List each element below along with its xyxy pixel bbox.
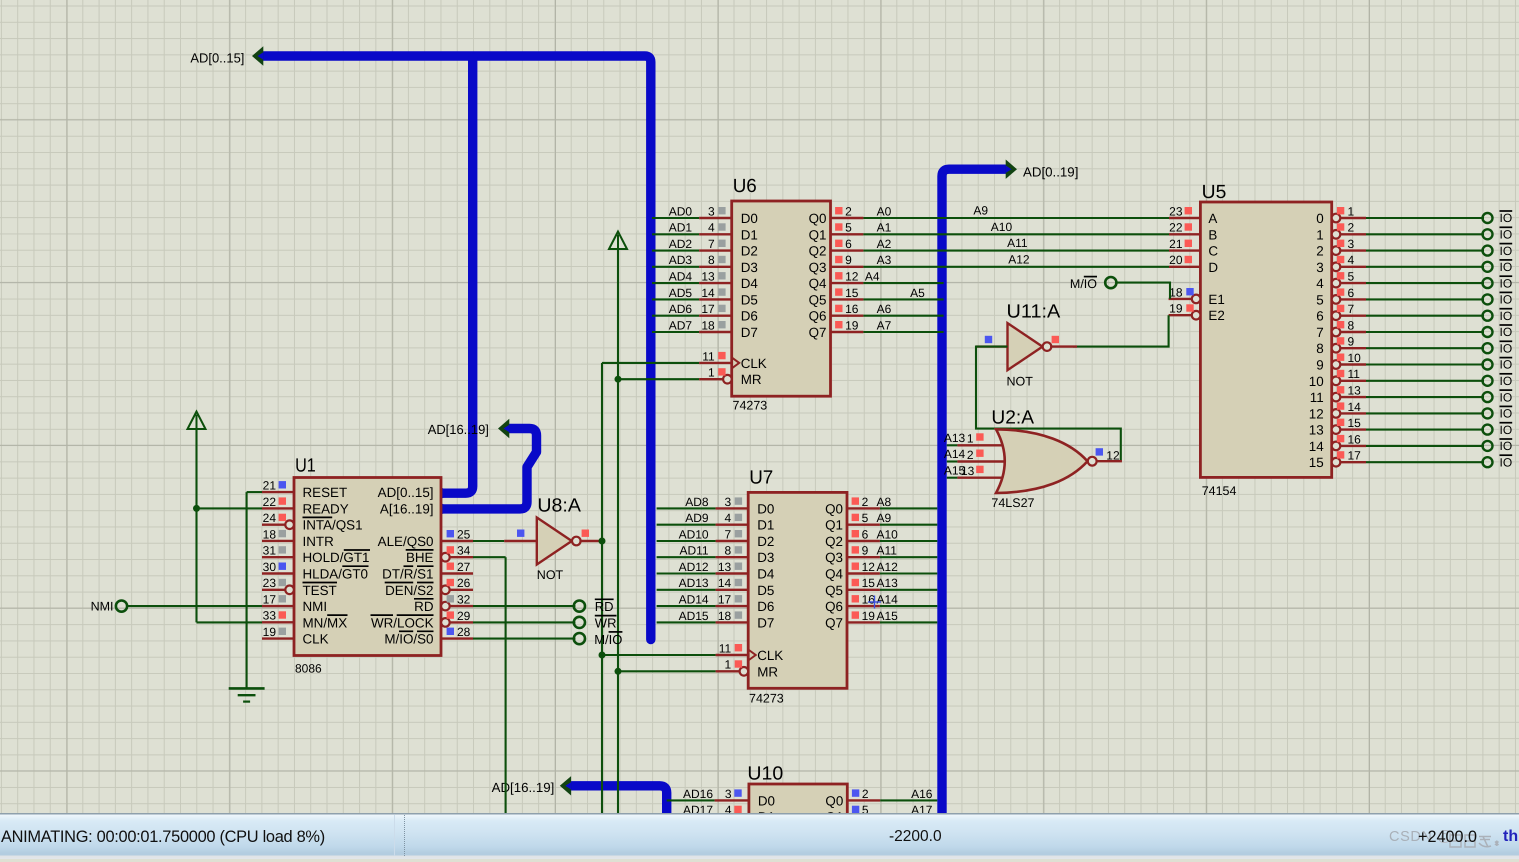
svg-text:D3: D3 — [757, 550, 774, 565]
svg-text:Q2: Q2 — [825, 534, 843, 549]
svg-text:30: 30 — [263, 560, 277, 574]
svg-text:74273: 74273 — [733, 399, 768, 413]
svg-text:U5: U5 — [1202, 182, 1227, 203]
svg-text:7: 7 — [708, 237, 715, 251]
svg-text:18: 18 — [263, 527, 277, 541]
svg-text:D4: D4 — [757, 567, 775, 582]
svg-text:6: 6 — [862, 527, 869, 541]
svg-text:A12: A12 — [1008, 252, 1030, 266]
svg-text:74273: 74273 — [749, 692, 784, 706]
svg-text:20: 20 — [1169, 253, 1183, 267]
svg-text:1: 1 — [1316, 227, 1323, 242]
svg-text:IO: IO — [1500, 211, 1513, 225]
svg-text:14: 14 — [718, 576, 732, 590]
svg-text:U1: U1 — [295, 456, 316, 477]
svg-text:4: 4 — [1348, 253, 1355, 267]
svg-text:8086: 8086 — [295, 662, 322, 676]
svg-text:16: 16 — [845, 302, 859, 316]
svg-text:A12: A12 — [877, 560, 899, 574]
svg-text:WR: WR — [595, 616, 617, 631]
svg-text:AD9: AD9 — [685, 511, 709, 525]
svg-text:16: 16 — [862, 593, 876, 607]
svg-text:13: 13 — [1309, 423, 1324, 438]
svg-text:RD: RD — [595, 599, 614, 614]
svg-text:U6: U6 — [733, 176, 757, 197]
svg-text:AD2: AD2 — [669, 237, 693, 251]
svg-text:5: 5 — [1316, 292, 1323, 307]
svg-text:D3: D3 — [741, 260, 758, 275]
svg-text:9: 9 — [1348, 335, 1355, 349]
svg-text:A10: A10 — [877, 527, 899, 541]
svg-text:23: 23 — [1169, 204, 1183, 218]
svg-text:AD7: AD7 — [669, 318, 693, 332]
svg-text:12: 12 — [862, 560, 876, 574]
svg-text:A0: A0 — [877, 204, 892, 218]
svg-text:15: 15 — [1348, 416, 1362, 430]
svg-text:AD3: AD3 — [669, 253, 693, 267]
svg-text:MR: MR — [741, 372, 762, 387]
svg-text:14: 14 — [701, 286, 715, 300]
svg-text:RESET: RESET — [303, 485, 348, 500]
svg-text:17: 17 — [1348, 449, 1362, 463]
svg-text:A14: A14 — [944, 447, 966, 461]
svg-text:IO: IO — [1500, 244, 1513, 258]
svg-text:M/IO/S0: M/IO/S0 — [384, 632, 433, 647]
svg-text:A4: A4 — [865, 270, 880, 284]
svg-text:16: 16 — [1348, 432, 1362, 446]
svg-text:U7: U7 — [749, 468, 773, 489]
svg-text:A9: A9 — [973, 204, 988, 218]
svg-text:0: 0 — [1316, 211, 1323, 226]
svg-text:2: 2 — [967, 448, 974, 462]
svg-text:D5: D5 — [757, 583, 774, 598]
svg-text:AD12: AD12 — [679, 560, 709, 574]
svg-text:MN/MX: MN/MX — [303, 615, 348, 630]
svg-text:Q6: Q6 — [809, 309, 827, 324]
svg-text:14: 14 — [1348, 400, 1362, 414]
svg-text:74LS27: 74LS27 — [991, 496, 1034, 510]
svg-text:D0: D0 — [741, 211, 758, 226]
svg-text:15: 15 — [1309, 455, 1324, 470]
svg-text:Q7: Q7 — [825, 615, 843, 630]
svg-text:HOLD/GT1: HOLD/GT1 — [303, 550, 370, 565]
svg-text:BHE: BHE — [406, 550, 434, 565]
svg-text:AD8: AD8 — [685, 495, 709, 509]
svg-text:IO: IO — [1500, 374, 1513, 388]
svg-text:D7: D7 — [757, 615, 774, 630]
svg-text:9: 9 — [845, 253, 852, 267]
svg-text:9: 9 — [1316, 358, 1323, 373]
svg-text:5: 5 — [1348, 270, 1355, 284]
svg-text:1: 1 — [967, 432, 974, 446]
svg-text:AD11: AD11 — [679, 544, 708, 558]
svg-text:7: 7 — [725, 527, 732, 541]
svg-text:19: 19 — [1169, 302, 1183, 316]
svg-text:AD10: AD10 — [679, 527, 709, 541]
svg-text:18: 18 — [1169, 285, 1183, 299]
svg-text:29: 29 — [457, 609, 471, 623]
svg-text:21: 21 — [263, 479, 277, 493]
svg-text:D2: D2 — [757, 534, 774, 549]
svg-text:12: 12 — [1106, 448, 1120, 462]
svg-text:34: 34 — [457, 544, 471, 558]
svg-text:10: 10 — [1309, 374, 1324, 389]
svg-text:A3: A3 — [877, 253, 892, 267]
svg-text:2: 2 — [862, 787, 869, 801]
svg-text:3: 3 — [708, 204, 715, 218]
svg-text:READY: READY — [303, 501, 349, 516]
svg-text:10: 10 — [1348, 351, 1362, 365]
svg-text:HLDA/GT0: HLDA/GT0 — [303, 567, 368, 582]
svg-text:DT/R/S1: DT/R/S1 — [382, 567, 433, 582]
svg-text:IO: IO — [1500, 407, 1513, 421]
svg-text:CLK: CLK — [303, 632, 329, 647]
svg-text:Q7: Q7 — [809, 325, 827, 340]
svg-text:IO: IO — [1500, 455, 1513, 469]
svg-text:AD[0..15]: AD[0..15] — [190, 51, 244, 66]
svg-text:15: 15 — [845, 286, 859, 300]
svg-text:12: 12 — [1309, 406, 1324, 421]
svg-text:22: 22 — [263, 495, 277, 509]
svg-text:U10: U10 — [747, 764, 783, 785]
svg-text:1: 1 — [708, 366, 715, 380]
svg-text:IO: IO — [1500, 390, 1513, 404]
svg-text:31: 31 — [263, 544, 277, 558]
svg-text:Q2: Q2 — [809, 244, 827, 259]
svg-text:Q3: Q3 — [825, 550, 843, 565]
svg-text:Q6: Q6 — [825, 599, 843, 614]
svg-text:C: C — [1208, 244, 1218, 259]
svg-text:22: 22 — [1169, 221, 1183, 235]
svg-text:CLK: CLK — [741, 356, 767, 371]
svg-text:13: 13 — [1348, 384, 1362, 398]
svg-text:6: 6 — [1348, 286, 1355, 300]
svg-text:AD0: AD0 — [669, 204, 693, 218]
svg-text:8: 8 — [1348, 318, 1355, 332]
svg-text:13: 13 — [961, 464, 975, 478]
svg-text:IO: IO — [1500, 439, 1513, 453]
svg-text:A[16..19]: A[16..19] — [380, 501, 434, 516]
svg-text:24: 24 — [263, 511, 277, 525]
svg-text:AD1: AD1 — [669, 221, 693, 235]
svg-text:19: 19 — [263, 625, 277, 639]
svg-text:12: 12 — [845, 270, 859, 284]
svg-text:A11: A11 — [1007, 236, 1028, 250]
svg-text:B: B — [1208, 227, 1217, 242]
svg-text:18: 18 — [701, 318, 715, 332]
svg-text:WR/LOCK: WR/LOCK — [371, 615, 434, 630]
svg-text:17: 17 — [701, 302, 715, 316]
svg-text:AD[0..19]: AD[0..19] — [1023, 165, 1078, 180]
svg-text:A15: A15 — [877, 609, 899, 623]
svg-text:5: 5 — [862, 511, 869, 525]
svg-text:AD16: AD16 — [683, 787, 713, 801]
svg-text:8: 8 — [708, 253, 715, 267]
svg-text:19: 19 — [862, 609, 876, 623]
svg-text:Q3: Q3 — [809, 260, 827, 275]
svg-text:D2: D2 — [741, 244, 758, 259]
svg-text:Q0: Q0 — [809, 211, 827, 226]
svg-text:AD[0..15]: AD[0..15] — [378, 485, 434, 500]
svg-text:A14: A14 — [877, 593, 899, 607]
svg-text:2: 2 — [1316, 244, 1323, 259]
svg-text:A2: A2 — [877, 237, 892, 251]
svg-text:A13: A13 — [944, 431, 966, 445]
svg-text:A: A — [1208, 211, 1217, 226]
svg-text:7: 7 — [1348, 302, 1355, 316]
svg-text:A9: A9 — [877, 511, 892, 525]
svg-text:4: 4 — [1316, 276, 1324, 291]
svg-text:6: 6 — [1316, 309, 1323, 324]
svg-text:NMI: NMI — [303, 599, 328, 614]
svg-text:8: 8 — [725, 544, 732, 558]
svg-text:18: 18 — [718, 609, 732, 623]
svg-text:Q1: Q1 — [809, 227, 827, 242]
svg-text:A6: A6 — [877, 302, 892, 316]
svg-text:A10: A10 — [991, 220, 1013, 234]
svg-text:A11: A11 — [877, 544, 898, 558]
svg-text:2: 2 — [845, 204, 852, 218]
svg-text:14: 14 — [1309, 439, 1324, 454]
svg-text:Q4: Q4 — [825, 567, 843, 582]
svg-text:D1: D1 — [757, 518, 774, 533]
svg-text:Q5: Q5 — [809, 292, 827, 307]
svg-text:33: 33 — [263, 609, 277, 623]
svg-text:IO: IO — [1500, 423, 1513, 437]
svg-text:74154: 74154 — [1202, 484, 1237, 498]
svg-text:INTA/QS1: INTA/QS1 — [303, 518, 363, 533]
svg-text:IO: IO — [1500, 309, 1513, 323]
svg-text:23: 23 — [263, 576, 277, 590]
svg-text:AD4: AD4 — [669, 270, 693, 284]
svg-text:IO: IO — [1500, 293, 1513, 307]
svg-text:A1: A1 — [877, 221, 892, 235]
svg-text:DEN/S2: DEN/S2 — [385, 583, 433, 598]
svg-text:3: 3 — [1316, 260, 1323, 275]
svg-text:AD[16..19]: AD[16..19] — [492, 780, 555, 795]
svg-text:U11:A: U11:A — [1007, 302, 1061, 323]
svg-text:D4: D4 — [741, 276, 759, 291]
svg-text:Q5: Q5 — [825, 583, 843, 598]
svg-text:11: 11 — [1310, 390, 1324, 405]
svg-text:M/IO: M/IO — [594, 632, 622, 647]
svg-text:MR: MR — [757, 664, 778, 679]
svg-text:NOT: NOT — [1007, 375, 1034, 389]
svg-text:Q4: Q4 — [809, 276, 827, 291]
svg-text:Q0: Q0 — [825, 793, 843, 808]
svg-text:6: 6 — [845, 237, 852, 251]
svg-text:M/IO: M/IO — [1070, 277, 1097, 291]
svg-text:2: 2 — [1348, 221, 1355, 235]
svg-text:7: 7 — [1316, 325, 1323, 340]
svg-text:IO: IO — [1500, 228, 1513, 242]
svg-text:1: 1 — [725, 658, 732, 672]
svg-text:Q0: Q0 — [825, 501, 843, 516]
svg-text:D7: D7 — [741, 325, 758, 340]
svg-text:E2: E2 — [1208, 308, 1224, 323]
svg-text:Q1: Q1 — [825, 518, 843, 533]
svg-text:IO: IO — [1500, 341, 1513, 355]
svg-text:5: 5 — [845, 221, 852, 235]
svg-text:15: 15 — [862, 576, 876, 590]
svg-text:IO: IO — [1500, 260, 1513, 274]
svg-text:11: 11 — [1348, 367, 1361, 381]
svg-text:28: 28 — [457, 625, 471, 639]
svg-text:21: 21 — [1169, 237, 1183, 251]
svg-text:D6: D6 — [757, 599, 774, 614]
svg-text:AD5: AD5 — [669, 286, 693, 300]
svg-text:A5: A5 — [910, 286, 925, 300]
svg-text:A13: A13 — [877, 576, 899, 590]
svg-text:25: 25 — [457, 527, 471, 541]
svg-text:26: 26 — [457, 576, 471, 590]
svg-text:IO: IO — [1500, 358, 1513, 372]
svg-text:3: 3 — [1348, 237, 1355, 251]
svg-text:AD6: AD6 — [669, 302, 693, 316]
svg-text:AD13: AD13 — [679, 576, 709, 590]
svg-text:D0: D0 — [757, 501, 774, 516]
svg-text:3: 3 — [725, 495, 732, 509]
svg-text:RD: RD — [414, 599, 434, 614]
svg-text:13: 13 — [701, 270, 715, 284]
svg-text:17: 17 — [263, 593, 277, 607]
svg-text:11: 11 — [719, 641, 732, 655]
svg-text:NMI: NMI — [91, 599, 114, 613]
svg-text:U8:A: U8:A — [537, 496, 581, 517]
svg-text:8: 8 — [1316, 341, 1323, 356]
svg-text:2: 2 — [862, 495, 869, 509]
svg-text:IO: IO — [1500, 325, 1513, 339]
svg-text:ALE/QS0: ALE/QS0 — [378, 534, 434, 549]
svg-text:AD14: AD14 — [679, 593, 709, 607]
svg-text:INTR: INTR — [303, 534, 335, 549]
svg-text:NOT: NOT — [537, 568, 564, 582]
svg-text:32: 32 — [457, 593, 471, 607]
svg-text:11: 11 — [702, 349, 715, 363]
svg-text:TEST: TEST — [303, 583, 337, 598]
svg-text:D5: D5 — [741, 292, 758, 307]
svg-text:1: 1 — [1348, 204, 1355, 218]
svg-text:9: 9 — [862, 544, 869, 558]
svg-text:D: D — [1208, 260, 1218, 275]
svg-text:27: 27 — [457, 560, 471, 574]
svg-text:CLK: CLK — [757, 648, 783, 663]
svg-text:A8: A8 — [877, 495, 892, 509]
svg-text:AD15: AD15 — [679, 609, 709, 623]
svg-text:19: 19 — [845, 318, 859, 332]
svg-text:AD[16..19]: AD[16..19] — [428, 422, 489, 437]
svg-text:3: 3 — [725, 787, 732, 801]
svg-text:4: 4 — [708, 221, 715, 235]
svg-text:4: 4 — [725, 511, 732, 525]
svg-text:A7: A7 — [877, 318, 892, 332]
svg-text:D0: D0 — [758, 793, 775, 808]
svg-text:17: 17 — [718, 593, 732, 607]
svg-text:E1: E1 — [1208, 292, 1224, 307]
svg-text:U2:A: U2:A — [991, 407, 1034, 428]
svg-text:13: 13 — [718, 560, 732, 574]
svg-text:D6: D6 — [741, 309, 758, 324]
svg-text:IO: IO — [1500, 276, 1513, 290]
svg-text:A16: A16 — [911, 787, 933, 801]
svg-text:D1: D1 — [741, 227, 758, 242]
